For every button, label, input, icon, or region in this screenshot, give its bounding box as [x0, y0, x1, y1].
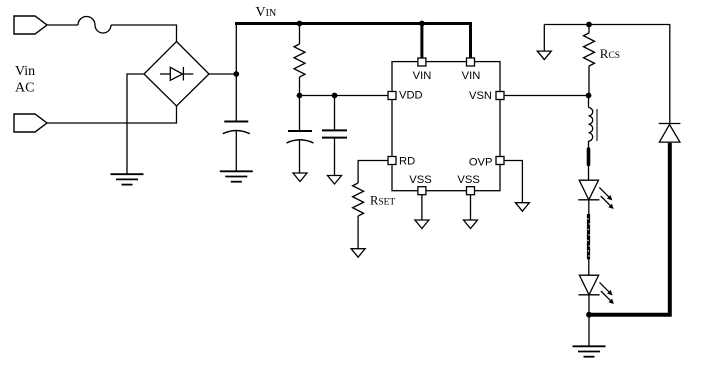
svg-text:VDD: VDD: [399, 90, 423, 102]
svg-text:AC: AC: [15, 80, 34, 95]
svg-text:OVP: OVP: [469, 156, 493, 168]
svg-text:VIN: VIN: [413, 70, 432, 82]
svg-text:VSN: VSN: [469, 90, 492, 102]
svg-text:VSS: VSS: [409, 174, 431, 186]
svg-text:VIN: VIN: [256, 5, 277, 20]
svg-text:Vin: Vin: [15, 64, 35, 79]
svg-text:VSS: VSS: [457, 174, 479, 186]
svg-text:RD: RD: [399, 156, 415, 168]
svg-text:VIN: VIN: [462, 70, 481, 82]
